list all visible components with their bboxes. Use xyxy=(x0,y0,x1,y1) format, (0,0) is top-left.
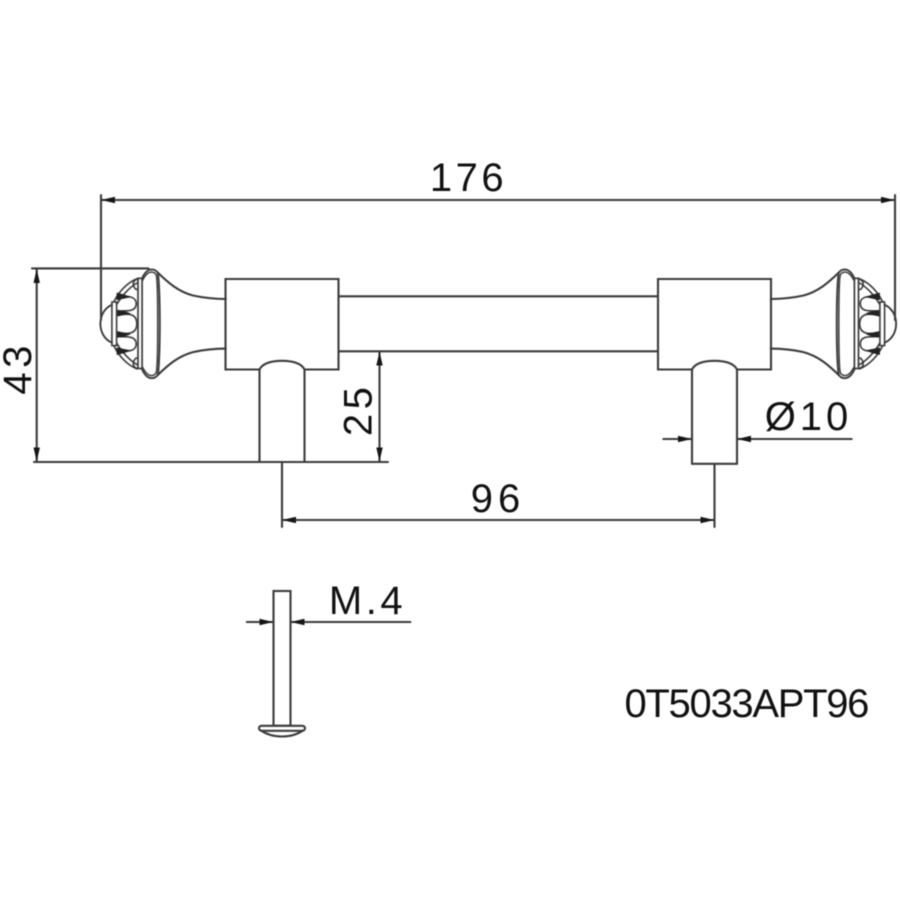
petal bulb 3 xyxy=(117,337,137,351)
finial trumpet neck xyxy=(158,272,226,299)
finial disc xyxy=(142,269,160,378)
left finial xyxy=(100,269,225,378)
dimension 176 line xyxy=(101,197,895,203)
left post xyxy=(260,361,305,462)
right finial (mirror) xyxy=(771,269,896,378)
extension line right 176 xyxy=(894,195,896,320)
screw head xyxy=(259,726,305,737)
svg-text:0T5033APT96: 0T5033APT96 xyxy=(624,682,868,726)
dimension 43 line xyxy=(34,269,40,462)
svg-text:M.4: M.4 xyxy=(329,579,406,623)
finial disc inner rim xyxy=(142,272,158,376)
petal wedge 2 xyxy=(117,310,131,317)
svg-text:96: 96 xyxy=(471,477,526,521)
svg-text:43: 43 xyxy=(0,341,40,395)
extension line bottom 43 / post baseline xyxy=(34,461,388,463)
right mounting block xyxy=(658,279,771,370)
dimension M.4 leader xyxy=(247,619,411,625)
handle bar top edge xyxy=(339,295,659,297)
handle bar bottom edge xyxy=(339,350,659,352)
finial dome xyxy=(100,305,112,343)
right post xyxy=(692,361,737,464)
petal bulb 2 xyxy=(117,314,137,333)
extension line top 43 xyxy=(32,267,149,269)
extension line left 176 xyxy=(100,195,102,320)
petal wedge 1 xyxy=(117,293,131,301)
screw shaft xyxy=(274,591,291,726)
svg-text:Ø10: Ø10 xyxy=(765,395,853,439)
finial flange xyxy=(138,278,142,368)
svg-text:25: 25 xyxy=(337,383,381,437)
petal wedge 4 xyxy=(117,347,131,355)
petal crown top xyxy=(114,279,137,303)
left mounting block xyxy=(226,279,339,370)
petal wedge 3 xyxy=(117,331,131,338)
dimension diameter 10 leader xyxy=(663,436,851,442)
petal crown bottom xyxy=(114,345,137,369)
extension line left 96 xyxy=(281,463,283,527)
petal bulb 1 xyxy=(117,297,137,311)
dimension 96 line xyxy=(282,517,715,523)
extension line right 96 xyxy=(713,465,715,527)
svg-text:176: 176 xyxy=(430,156,507,200)
dimension 25 line xyxy=(376,352,382,462)
finial washer plate xyxy=(112,302,117,346)
